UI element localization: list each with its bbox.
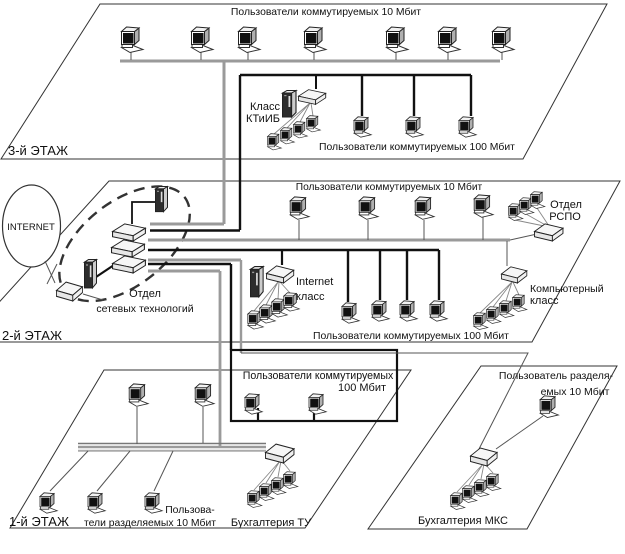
svg-text:Пользователи коммутируемых 100: Пользователи коммутируемых 100 Мбит (313, 330, 509, 342)
svg-text:Пользователь разделя-: Пользователь разделя- (499, 370, 614, 382)
svg-text:КТиИБ: КТиИБ (246, 113, 280, 125)
svg-text:100 Мбит: 100 Мбит (338, 382, 386, 394)
svg-text:Бухгалтерия МКС: Бухгалтерия МКС (418, 515, 508, 527)
svg-text:3-й ЭТАЖ: 3-й ЭТАЖ (8, 143, 68, 158)
svg-text:Компьютерный: Компьютерный (530, 283, 604, 295)
svg-text:Пользователи коммутируемых: Пользователи коммутируемых (243, 370, 394, 382)
svg-text:2-й ЭТАЖ: 2-й ЭТАЖ (2, 328, 62, 343)
svg-text:Класс: Класс (250, 101, 280, 113)
svg-text:тели разделяемых 10 Мбит: тели разделяемых 10 Мбит (84, 517, 216, 529)
svg-text:емых 10 Мбит: емых 10 Мбит (541, 386, 610, 398)
svg-text:Отдел: Отдел (129, 288, 161, 300)
svg-text:Бухгалтерия ТУ: Бухгалтерия ТУ (231, 517, 312, 529)
svg-text:Пользова-: Пользова- (165, 505, 215, 516)
svg-text:сетевых технологий: сетевых технологий (96, 303, 193, 315)
svg-text:Пользователи коммутируемых 10: Пользователи коммутируемых 10 Мбит (231, 6, 421, 18)
svg-text:РСПО: РСПО (549, 211, 581, 223)
svg-text:Internet: Internet (296, 276, 333, 288)
svg-text:Отдел: Отдел (550, 199, 582, 211)
svg-text:Пользователи коммутируемых 10: Пользователи коммутируемых 10 Мбит (296, 181, 483, 193)
svg-text:Пользователи коммутируемых 100: Пользователи коммутируемых 100 Мбит (319, 141, 515, 153)
svg-text:класс: класс (296, 291, 325, 303)
svg-text:1-й ЭТАЖ: 1-й ЭТАЖ (9, 514, 69, 529)
svg-text:класс: класс (530, 295, 559, 307)
svg-text:INTERNET: INTERNET (7, 222, 55, 233)
